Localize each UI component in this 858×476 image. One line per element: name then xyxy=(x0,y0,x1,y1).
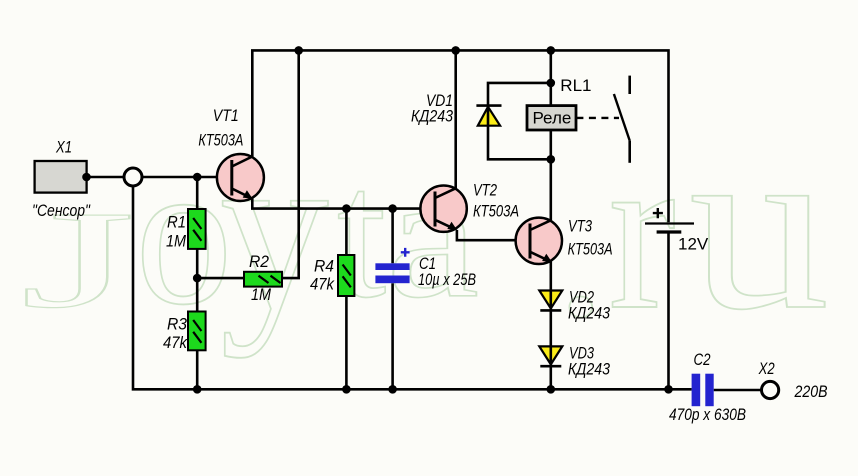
node X1-base junction xyxy=(82,173,91,182)
svg-text:R3: R3 xyxy=(167,316,188,334)
svg-text:1M: 1M xyxy=(251,286,271,304)
svg-text:КД243: КД243 xyxy=(568,361,611,379)
resistor R4 xyxy=(338,255,354,296)
wire R4 leads xyxy=(345,209,348,390)
transistor VT3 xyxy=(516,218,562,264)
svg-text:C2: C2 xyxy=(694,351,711,369)
battery GB1 12V xyxy=(645,208,694,232)
resistor R3 xyxy=(188,312,206,351)
wire VD1 branch xyxy=(488,83,551,159)
junction dots top rail xyxy=(294,46,303,55)
svg-text:t: t xyxy=(337,132,386,336)
svg-text:Реле: Реле xyxy=(532,108,571,127)
relay RL1 box xyxy=(527,106,576,130)
svg-text:470p x 630В: 470p x 630В xyxy=(669,406,746,424)
junction dots relay xyxy=(547,79,556,88)
svg-text:a: a xyxy=(386,139,479,335)
wire C1 leads xyxy=(391,209,394,390)
transistor VT1 xyxy=(217,154,264,201)
wire VT3 emitter to VD2 VD3 chain xyxy=(549,262,552,390)
svg-text:X1: X1 xyxy=(55,138,72,156)
svg-text:КТ503А: КТ503А xyxy=(198,131,243,149)
svg-text:КТ503А: КТ503А xyxy=(473,203,519,221)
top rail wire xyxy=(252,50,668,222)
svg-text:47k: 47k xyxy=(310,276,335,294)
svg-text:r: r xyxy=(609,104,676,357)
wire VT2 collector riser xyxy=(454,50,457,188)
terminal X2 xyxy=(762,381,779,398)
svg-text:VT1: VT1 xyxy=(213,107,239,125)
junction dot R1 R2 R3 xyxy=(193,274,202,283)
wire riser x=298.7 to R2 xyxy=(282,50,299,278)
svg-text:КД243: КД243 xyxy=(568,305,611,323)
svg-text:КТ503А: КТ503А xyxy=(568,241,613,259)
svg-text:10µ x 25В: 10µ x 25В xyxy=(418,271,476,289)
svg-text:КД243: КД243 xyxy=(411,107,454,125)
connector X1 xyxy=(35,161,87,193)
relay contact switch xyxy=(614,76,630,163)
svg-text:u: u xyxy=(689,91,830,360)
svg-text:VT2: VT2 xyxy=(473,182,497,200)
dashed link relay to contact xyxy=(576,117,619,119)
svg-text:12V: 12V xyxy=(678,235,709,254)
svg-text:1M: 1M xyxy=(166,233,186,251)
watermark Joyta.ru xyxy=(20,91,829,360)
junction dots emitter line xyxy=(342,204,351,213)
wire battery to bottom rail xyxy=(667,233,670,389)
capacitor C1 xyxy=(375,248,409,283)
svg-text:R2: R2 xyxy=(249,253,269,271)
svg-text:220В: 220В xyxy=(794,383,828,401)
capacitor C2 xyxy=(692,374,714,407)
svg-text:"Сенсор": "Сенсор" xyxy=(32,202,91,220)
wire base line X1 to VT1 xyxy=(87,176,232,179)
diode VD3 xyxy=(539,346,562,366)
diode VD2 xyxy=(539,291,562,311)
svg-text:RL1: RL1 xyxy=(560,76,591,95)
wire sensor drop and bottom rail xyxy=(133,181,692,389)
terminal open circle xyxy=(124,168,142,186)
wire R2 left lead xyxy=(197,277,244,280)
junction dots bottom rail xyxy=(193,385,202,394)
wire R1-R3 chain xyxy=(196,177,199,389)
resistor R2 xyxy=(244,272,282,287)
svg-text:X2: X2 xyxy=(758,360,775,378)
svg-text:VT3: VT3 xyxy=(568,218,593,236)
wire VT1 emitter to VT2 base xyxy=(252,199,435,209)
resistor R1 xyxy=(188,209,206,249)
svg-text:R4: R4 xyxy=(314,258,334,276)
svg-text:R1: R1 xyxy=(167,214,186,232)
diode VD1 xyxy=(476,106,501,126)
svg-text:47k: 47k xyxy=(163,334,188,352)
junction dot base R1 xyxy=(193,173,202,182)
wire VT2 emitter to VT3 base xyxy=(457,230,530,240)
wire C2 to X2 xyxy=(714,389,762,392)
wire relay chain x=550.8 xyxy=(549,50,552,220)
transistor VT2 xyxy=(420,186,466,232)
